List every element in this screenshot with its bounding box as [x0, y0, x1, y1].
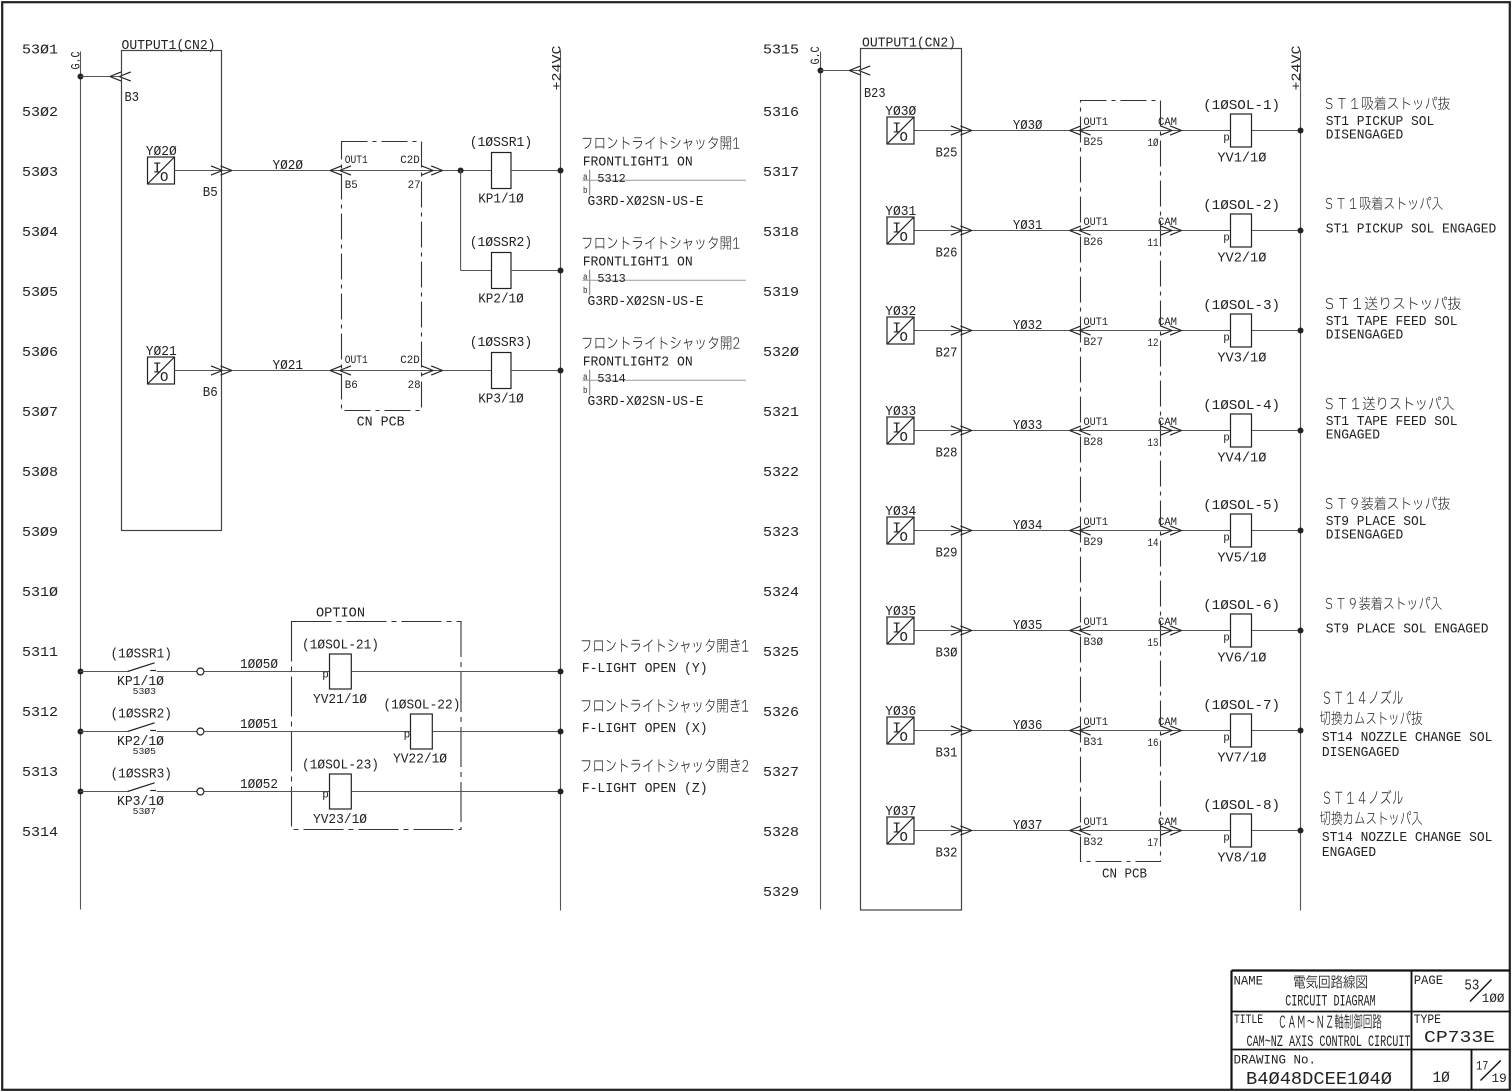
- svg-text:B28: B28: [1084, 437, 1104, 449]
- svg-text:OUT1: OUT1: [345, 355, 368, 367]
- svg-text:B29: B29: [936, 546, 958, 562]
- svg-text:G3RD-XØ2SN-US-E: G3RD-XØ2SN-US-E: [588, 295, 704, 310]
- node branch junction to KP2: [458, 168, 464, 174]
- svg-text:F-LIGHT OPEN (Y): F-LIGHT OPEN (Y): [582, 662, 708, 677]
- svg-text:53Ø7: 53Ø7: [133, 806, 156, 817]
- svg-text:KP1/1Ø: KP1/1Ø: [478, 192, 524, 207]
- function label F-LIGHT OPEN (Y): [582, 639, 749, 677]
- svg-text:B3Ø: B3Ø: [936, 646, 958, 662]
- wire Y034 from I/O to solenoid: [915, 530, 1231, 532]
- svg-text:(1ØSOL-4): (1ØSOL-4): [1203, 399, 1280, 414]
- svg-text:OUT1: OUT1: [1084, 317, 1109, 329]
- wire 10SSR3 coil to +24VC: [511, 370, 561, 372]
- svg-text:(1ØSOL-2): (1ØSOL-2): [1203, 199, 1280, 214]
- svg-text:CN PCB: CN PCB: [357, 415, 405, 431]
- connector arrow CAM pin 12 out of CN PCB: [1161, 326, 1182, 335]
- svg-text:YØ31: YØ31: [1013, 219, 1043, 234]
- svg-text:5327: 5327: [763, 765, 799, 781]
- svg-text:YØ3Ø: YØ3Ø: [885, 105, 916, 120]
- relay contact KP2/10 (10SSR2): [81, 708, 204, 757]
- +24VC rail (right): [1300, 51, 1302, 911]
- net G.C rail (left): [80, 52, 82, 910]
- svg-text:KP3/1Ø: KP3/1Ø: [478, 392, 524, 407]
- svg-text:53Ø5: 53Ø5: [22, 285, 58, 301]
- svg-text:DISENGAGED: DISENGAGED: [1326, 129, 1404, 144]
- solenoid YV8 (10SOL-8): [1203, 799, 1280, 867]
- svg-text:28: 28: [408, 380, 421, 392]
- svg-text:B6: B6: [345, 380, 358, 392]
- svg-text:YV22/1Ø: YV22/1Ø: [393, 753, 447, 768]
- svg-text:B23: B23: [864, 86, 886, 102]
- wire net 10051: [204, 731, 411, 733]
- connector arrow Y036 into CN PCB pin B31: [1070, 726, 1091, 735]
- svg-text:(1ØSOL-1): (1ØSOL-1): [1203, 99, 1280, 114]
- svg-text:O: O: [900, 330, 908, 346]
- wire YV5 to +24VC: [1252, 530, 1301, 532]
- svg-text:YØ36: YØ36: [885, 705, 916, 720]
- svg-text:OUT1: OUT1: [1084, 817, 1109, 829]
- svg-text:p: p: [1223, 532, 1230, 544]
- svg-text:1Ø: 1Ø: [1433, 1069, 1450, 1087]
- PCB interface CN PCB (left) chain-line box: [342, 142, 422, 411]
- connector arrow CAM pin 13 out of CN PCB: [1161, 426, 1182, 435]
- I/O output point Y030: [885, 105, 916, 146]
- svg-text:DISENGAGED: DISENGAGED: [1322, 746, 1400, 761]
- svg-text:B29: B29: [1084, 537, 1104, 549]
- svg-text:5312: 5312: [22, 705, 58, 721]
- title block TYPE cell CP733E: [1414, 1012, 1495, 1048]
- svg-text:YV23/1Ø: YV23/1Ø: [313, 813, 367, 828]
- wire Y033 from I/O to solenoid: [915, 430, 1231, 432]
- svg-text:B27: B27: [1084, 337, 1104, 349]
- node G.C junction (right): [818, 68, 824, 74]
- svg-text:F-LIGHT OPEN (X): F-LIGHT OPEN (X): [582, 722, 708, 737]
- svg-text:CP733E: CP733E: [1424, 1029, 1495, 1048]
- svg-text:YØ33: YØ33: [885, 405, 916, 420]
- svg-text:YV1/1Ø: YV1/1Ø: [1217, 152, 1266, 167]
- svg-text:5312: 5312: [597, 172, 625, 186]
- svg-text:OPTION: OPTION: [316, 607, 365, 622]
- svg-text:YØ32: YØ32: [1013, 319, 1043, 334]
- svg-text:B3: B3: [125, 90, 140, 106]
- connector arrow Y020 into CN PCB pin B5: [330, 166, 351, 175]
- wire net 10050: [204, 671, 330, 673]
- node junction on +24VC rail: [558, 729, 564, 735]
- svg-text:53Ø3: 53Ø3: [22, 165, 58, 181]
- svg-text:1ØØ5Ø: 1ØØ5Ø: [240, 658, 278, 673]
- svg-text:(1ØSSR2): (1ØSSR2): [111, 708, 173, 723]
- function label F-LIGHT OPEN (Z): [582, 759, 749, 797]
- svg-text:13: 13: [1148, 438, 1159, 450]
- connector arrow Y031 out of OUTPUT1: [951, 226, 972, 235]
- svg-text:5322: 5322: [763, 465, 799, 481]
- SSR relay coil KP2/10 (10SSR2): [470, 236, 533, 307]
- svg-text:a: a: [583, 272, 588, 283]
- svg-text:5318: 5318: [763, 225, 799, 241]
- svg-text:532Ø: 532Ø: [763, 345, 799, 361]
- svg-text:B26: B26: [936, 246, 958, 262]
- svg-text:YØ37: YØ37: [885, 805, 916, 820]
- svg-text:p: p: [1223, 432, 1230, 444]
- node junction on +24VC rail: [1298, 828, 1304, 834]
- wire YV4 to +24VC: [1252, 430, 1301, 432]
- svg-text:FRONTLIGHT1 ON: FRONTLIGHT1 ON: [583, 255, 693, 270]
- net label G.C (right): [808, 46, 823, 64]
- svg-text:YV3/1Ø: YV3/1Ø: [1217, 352, 1266, 367]
- net G.C rail (right): [820, 52, 822, 910]
- svg-text:B31: B31: [1084, 737, 1104, 749]
- svg-text:p: p: [1223, 632, 1230, 644]
- svg-text:YØ34: YØ34: [885, 505, 916, 520]
- svg-text:5313: 5313: [597, 272, 625, 286]
- svg-text:15: 15: [1148, 638, 1159, 650]
- svg-text:G3RD-XØ2SN-US-E: G3RD-XØ2SN-US-E: [588, 395, 704, 410]
- node junction on G.C rail row 10051: [78, 729, 84, 735]
- wire YV2 to +24VC: [1252, 230, 1301, 232]
- solenoid YV23/10 (10SOL-23): [302, 759, 379, 829]
- svg-text:OUT1: OUT1: [1084, 217, 1109, 229]
- function label ST1 TAPE FEED SOL DISENGAGED: [1326, 297, 1461, 344]
- svg-text:ST14 NOZZLE CHANGE SOL: ST14 NOZZLE CHANGE SOL: [1322, 731, 1493, 746]
- svg-text:+24VC: +24VC: [1290, 46, 1304, 91]
- PLC output module OUTPUT1(CN2) left box: [122, 39, 222, 531]
- svg-text:5313: 5313: [22, 765, 58, 781]
- solenoid YV5 (10SOL-5): [1203, 499, 1280, 567]
- svg-text:G.C: G.C: [808, 46, 823, 64]
- node junction on G.C rail row 10052: [78, 789, 84, 795]
- function label ST1 PICKUP SOL ENGAGED: [1326, 197, 1497, 238]
- function label frontlight shutter 5312: [583, 137, 746, 211]
- connector arrow Y032 into CN PCB pin B27: [1070, 326, 1091, 335]
- wire net 10052: [204, 791, 330, 793]
- solenoid YV4 (10SOL-4): [1203, 399, 1280, 467]
- svg-text:YØ33: YØ33: [1013, 419, 1043, 434]
- connector arrow Y030 out of OUTPUT1: [951, 126, 972, 135]
- svg-text:1ØØ52: 1ØØ52: [240, 778, 278, 793]
- connector arrow Y037 out of OUTPUT1: [951, 826, 972, 835]
- svg-text:B32: B32: [1084, 837, 1104, 849]
- svg-text:(1ØSSR1): (1ØSSR1): [111, 648, 173, 663]
- svg-text:YV7/1Ø: YV7/1Ø: [1217, 752, 1266, 767]
- title block frame: [1232, 971, 1511, 1091]
- svg-text:PAGE: PAGE: [1414, 973, 1444, 988]
- svg-text:531Ø: 531Ø: [22, 585, 58, 601]
- svg-text:(1ØSOL-23): (1ØSOL-23): [302, 759, 379, 774]
- svg-text:p: p: [1223, 832, 1230, 844]
- svg-text:53: 53: [1464, 978, 1479, 995]
- svg-text:O: O: [900, 630, 908, 646]
- node junction on +24VC rail: [1298, 628, 1304, 634]
- svg-text:ENGAGED: ENGAGED: [1326, 429, 1380, 444]
- svg-text:5323: 5323: [763, 525, 799, 541]
- node junction on +24VC rail: [558, 368, 564, 374]
- svg-text:p: p: [322, 790, 329, 802]
- node junction on +24VC rail: [1298, 128, 1304, 134]
- wire YV8 to +24VC: [1252, 830, 1301, 832]
- connector arrow Y034 out of OUTPUT1: [951, 526, 972, 535]
- svg-text:(1ØSOL-21): (1ØSOL-21): [302, 639, 379, 654]
- svg-text:11: 11: [1148, 238, 1159, 250]
- svg-text:OUT1: OUT1: [1084, 617, 1109, 629]
- svg-text:B3Ø: B3Ø: [1084, 637, 1104, 649]
- svg-text:O: O: [900, 430, 908, 446]
- SSR relay coil KP1/10 (10SSR1): [470, 136, 533, 207]
- wire YV23 to +24VC: [351, 791, 560, 793]
- svg-text:(1ØSSR3): (1ØSSR3): [111, 768, 173, 783]
- svg-text:17: 17: [1148, 838, 1159, 850]
- connector arrow B3 into OUTPUT1(CN2): [110, 72, 131, 81]
- svg-text:5329: 5329: [763, 885, 799, 901]
- node junction on +24VC rail: [558, 268, 564, 274]
- svg-text:27: 27: [408, 180, 421, 192]
- svg-text:B5: B5: [345, 180, 358, 192]
- svg-text:O: O: [900, 230, 908, 246]
- connector arrow Y035 into CN PCB pin B30: [1070, 626, 1091, 635]
- connector arrow Y035 out of OUTPUT1: [951, 626, 972, 635]
- svg-text:p: p: [404, 730, 411, 742]
- svg-text:O: O: [160, 370, 168, 386]
- connector arrow Y036 out of OUTPUT1: [951, 726, 972, 735]
- svg-text:B6: B6: [203, 385, 218, 401]
- svg-text:5328: 5328: [763, 825, 799, 841]
- solenoid YV6 (10SOL-6): [1203, 599, 1280, 667]
- I/O output point Y032: [885, 305, 916, 346]
- PLC output module OUTPUT1(CN2) right box: [861, 37, 962, 910]
- net label +24VC (left): [550, 46, 564, 91]
- svg-text:KP2/1Ø: KP2/1Ø: [478, 292, 524, 307]
- solenoid YV21/10 (10SOL-21): [302, 639, 379, 709]
- node junction on +24VC rail: [1298, 228, 1304, 234]
- wire 10SSR1 coil to +24VC: [511, 170, 561, 172]
- title block DRAWING No. cell B4048DCEE1040: [1234, 1053, 1393, 1091]
- connector arrow Y021 into CN PCB pin B6: [330, 366, 351, 375]
- svg-text:14: 14: [1148, 538, 1159, 550]
- svg-text:17: 17: [1476, 1059, 1488, 1073]
- svg-text:YV2/1Ø: YV2/1Ø: [1217, 252, 1266, 267]
- svg-text:53Ø5: 53Ø5: [133, 746, 157, 757]
- connector arrow Y033 out of OUTPUT1: [951, 426, 972, 435]
- svg-text:(1ØSOL-5): (1ØSOL-5): [1203, 499, 1280, 514]
- svg-text:p: p: [1223, 732, 1230, 744]
- wire YV22 to +24VC: [433, 731, 561, 733]
- svg-text:OUT1: OUT1: [1084, 717, 1109, 729]
- wire Y036 from I/O to solenoid: [915, 730, 1231, 732]
- svg-text:YØ21: YØ21: [146, 345, 177, 360]
- svg-text:a: a: [583, 172, 588, 183]
- connector arrow CAM pin 14 out of CN PCB: [1161, 526, 1182, 535]
- svg-text:(1ØSOL-3): (1ØSOL-3): [1203, 299, 1280, 314]
- svg-text:OUT1: OUT1: [1084, 117, 1109, 129]
- svg-text:F-LIGHT OPEN (Z): F-LIGHT OPEN (Z): [582, 782, 708, 797]
- svg-text:p: p: [1223, 232, 1230, 244]
- title block NAME cell: [1234, 974, 1376, 1011]
- relay contact KP3/10 (10SSR3): [81, 768, 204, 817]
- svg-text:5319: 5319: [763, 285, 799, 301]
- svg-text:YV6/1Ø: YV6/1Ø: [1217, 652, 1266, 667]
- I/O output point Y037: [885, 805, 916, 846]
- left rung line numbers 5301-5314: [22, 43, 58, 842]
- solenoid YV1 (10SOL-1): [1203, 99, 1280, 167]
- connector arrow Y034 into CN PCB pin B29: [1070, 526, 1091, 535]
- wire YV1 to +24VC: [1252, 130, 1301, 132]
- svg-text:ST1 PICKUP SOL ENGAGED: ST1 PICKUP SOL ENGAGED: [1326, 223, 1497, 238]
- svg-text:B32: B32: [936, 846, 958, 862]
- I/O output point Y021: [146, 345, 177, 386]
- svg-text:YV5/1Ø: YV5/1Ø: [1217, 552, 1266, 567]
- function label ST9 PLACE SOL DISENGAGED: [1326, 497, 1450, 544]
- function label ST14 NOZZLE CHANGE SOL ENGAGED: [1320, 790, 1493, 861]
- svg-text:FRONTLIGHT2 ON: FRONTLIGHT2 ON: [583, 355, 693, 370]
- I/O output point Y036: [885, 705, 916, 746]
- wire YV3 to +24VC: [1252, 330, 1301, 332]
- I/O output point Y020: [146, 145, 177, 186]
- svg-text:YØ2Ø: YØ2Ø: [273, 159, 304, 174]
- wire branch down to KP2 coil row: [460, 171, 462, 271]
- title block TITLE cell: [1234, 1012, 1411, 1051]
- svg-text:5316: 5316: [763, 105, 799, 121]
- wire Y030 from I/O to solenoid: [915, 130, 1231, 132]
- net label G.C (left): [69, 51, 84, 69]
- svg-text:YV21/1Ø: YV21/1Ø: [313, 693, 367, 708]
- OPTION chain-line box: [292, 622, 462, 830]
- connector arrow CAM pin 16 out of CN PCB: [1161, 726, 1182, 735]
- solenoid YV3 (10SOL-3): [1203, 299, 1280, 367]
- svg-text:DRAWING No.: DRAWING No.: [1234, 1053, 1317, 1068]
- function label ST1 PICKUP SOL DISENGAGED: [1326, 97, 1450, 144]
- svg-text:NAME: NAME: [1234, 974, 1264, 989]
- svg-text:12: 12: [1148, 338, 1159, 350]
- svg-text:DISENGAGED: DISENGAGED: [1326, 529, 1404, 544]
- wire Y021 from I/O to SSR coil: [174, 370, 492, 372]
- node junction on +24VC rail: [558, 669, 564, 675]
- svg-text:B27: B27: [936, 346, 958, 362]
- svg-text:ST14 NOZZLE CHANGE SOL: ST14 NOZZLE CHANGE SOL: [1322, 831, 1493, 846]
- svg-text:YØ3Ø: YØ3Ø: [1013, 119, 1043, 134]
- svg-text:a: a: [583, 372, 588, 383]
- svg-text:O: O: [160, 170, 168, 186]
- svg-text:53Ø1: 53Ø1: [22, 43, 58, 59]
- svg-text:OUT1: OUT1: [1084, 517, 1109, 529]
- svg-text:CAM~NZ AXIS CONTROL CIRCUIT: CAM~NZ AXIS CONTROL CIRCUIT: [1247, 1033, 1411, 1051]
- svg-text:1ØØ: 1ØØ: [1482, 991, 1505, 1006]
- solenoid YV22/10 (10SOL-22): [383, 699, 460, 768]
- svg-text:53Ø3: 53Ø3: [133, 686, 157, 697]
- svg-text:FRONTLIGHT1 ON: FRONTLIGHT1 ON: [583, 155, 693, 170]
- connector arrow B23 into OUTPUT1(CN2): [849, 66, 870, 75]
- svg-text:CN PCB: CN PCB: [1102, 868, 1147, 883]
- node junction on +24VC rail: [1298, 528, 1304, 534]
- wire Y031 from I/O to solenoid: [915, 230, 1231, 232]
- node junction on +24VC rail: [1298, 328, 1304, 334]
- wire Y037 from I/O to solenoid: [915, 830, 1231, 832]
- svg-text:C2D: C2D: [400, 355, 420, 367]
- svg-text:YV4/1Ø: YV4/1Ø: [1217, 452, 1266, 467]
- +24VC rail (left): [560, 51, 562, 911]
- svg-text:p: p: [1223, 132, 1230, 144]
- svg-text:YØ36: YØ36: [1013, 719, 1043, 734]
- svg-text:ENGAGED: ENGAGED: [1322, 846, 1376, 861]
- svg-text:OUTPUT1(CN2): OUTPUT1(CN2): [122, 39, 216, 54]
- svg-text:O: O: [900, 530, 908, 546]
- wire G.C to OUTPUT1 connector: [81, 76, 122, 78]
- svg-text:53Ø2: 53Ø2: [22, 105, 58, 121]
- wire YV21 to +24VC: [351, 671, 560, 673]
- svg-text:TITLE: TITLE: [1234, 1012, 1263, 1027]
- svg-text:5314: 5314: [597, 372, 625, 386]
- connector arrow CAM pin 10 out of CN PCB: [1161, 126, 1182, 135]
- svg-text:19: 19: [1492, 1071, 1507, 1086]
- I/O output point Y034: [885, 505, 916, 546]
- svg-text:B5: B5: [203, 185, 218, 201]
- svg-text:YØ21: YØ21: [273, 359, 304, 374]
- wire YV6 to +24VC: [1252, 630, 1301, 632]
- svg-text:5325: 5325: [763, 645, 799, 661]
- connector arrow Y031 into CN PCB pin B26: [1070, 226, 1091, 235]
- svg-text:(1ØSOL-8): (1ØSOL-8): [1203, 799, 1280, 814]
- title block PAGE cell 53/100: [1414, 973, 1505, 1006]
- function label F-LIGHT OPEN (X): [582, 699, 749, 737]
- net label +24VC (right): [1290, 46, 1304, 91]
- svg-text:B31: B31: [936, 746, 958, 762]
- connector arrow C2D pin 28 out of CN PCB: [422, 366, 443, 375]
- svg-text:5324: 5324: [763, 585, 799, 601]
- svg-text:O: O: [900, 730, 908, 746]
- wire Y020 from I/O to SSR coil: [174, 170, 492, 172]
- connector arrow CAM pin 17 out of CN PCB: [1161, 826, 1182, 835]
- svg-text:5311: 5311: [22, 645, 58, 661]
- svg-text:O: O: [900, 130, 908, 146]
- connector arrow C2D pin 27 out of CN PCB: [422, 166, 443, 175]
- connector arrow Y020 out of OUTPUT1: [211, 166, 232, 175]
- svg-text:(1ØSOL-22): (1ØSOL-22): [383, 699, 460, 714]
- svg-text:YV8/1Ø: YV8/1Ø: [1217, 852, 1266, 867]
- connector arrow Y030 into CN PCB pin B25: [1070, 126, 1091, 135]
- function label ST14 NOZZLE CHANGE SOL DISENGAGED: [1320, 690, 1493, 761]
- PCB interface CN PCB (right) chain-line box: [1081, 101, 1161, 862]
- svg-text:OUT1: OUT1: [345, 155, 368, 167]
- svg-text:YØ32: YØ32: [885, 305, 916, 320]
- wire YV7 to +24VC: [1252, 730, 1301, 732]
- svg-text:B25: B25: [936, 146, 958, 162]
- svg-text:G3RD-XØ2SN-US-E: G3RD-XØ2SN-US-E: [588, 195, 704, 210]
- SSR relay coil KP3/10 (10SSR3): [470, 336, 533, 407]
- svg-text:YØ34: YØ34: [1013, 519, 1043, 534]
- svg-text:YØ35: YØ35: [885, 605, 916, 620]
- connector arrow Y032 out of OUTPUT1: [951, 326, 972, 335]
- svg-text:53Ø7: 53Ø7: [22, 405, 58, 421]
- svg-text:YØ31: YØ31: [885, 205, 916, 220]
- svg-text:B4Ø48DCEE1Ø4Ø: B4Ø48DCEE1Ø4Ø: [1246, 1070, 1392, 1090]
- svg-text:B25: B25: [1084, 137, 1104, 149]
- svg-text:C2D: C2D: [400, 155, 420, 167]
- svg-text:5314: 5314: [22, 825, 58, 841]
- svg-text:ST9 PLACE SOL ENGAGED: ST9 PLACE SOL ENGAGED: [1326, 623, 1489, 638]
- svg-text:O: O: [900, 830, 908, 846]
- svg-text:5321: 5321: [763, 405, 799, 421]
- connector arrow Y037 into CN PCB pin B32: [1070, 826, 1091, 835]
- function label ST1 TAPE FEED SOL ENGAGED: [1326, 397, 1458, 444]
- svg-text:p: p: [1223, 332, 1230, 344]
- svg-text:CIRCUIT DIAGRAM: CIRCUIT DIAGRAM: [1285, 992, 1376, 1010]
- svg-text:YØ37: YØ37: [1013, 819, 1043, 834]
- node junction on G.C rail row 10050: [78, 669, 84, 675]
- svg-text:DISENGAGED: DISENGAGED: [1326, 329, 1404, 344]
- connector arrow Y033 into CN PCB pin B28: [1070, 426, 1091, 435]
- svg-text:16: 16: [1148, 738, 1159, 750]
- wire G.C to OUTPUT1 connector (right): [821, 70, 861, 72]
- svg-text:YØ2Ø: YØ2Ø: [146, 145, 177, 160]
- node G.C junction (left): [78, 74, 84, 80]
